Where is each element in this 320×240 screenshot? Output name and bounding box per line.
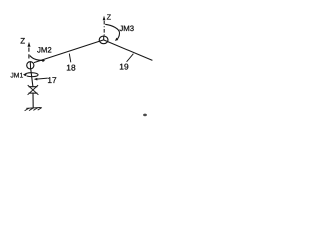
svg-text:19: 19 bbox=[119, 62, 129, 72]
link label l9 bbox=[119, 62, 129, 72]
svg-text:Z: Z bbox=[107, 13, 112, 22]
joint circle JM2 (shoulder) bbox=[27, 62, 34, 69]
svg-text:18: 18 bbox=[66, 62, 76, 72]
axis line through elbow circle bbox=[103, 36, 105, 40]
Z axis arrowhead (left) bbox=[28, 42, 31, 47]
joint label JM2 bbox=[37, 46, 52, 55]
ground hatch 3 bbox=[33, 108, 37, 111]
link l9 (elbow to tip) bbox=[104, 40, 153, 61]
ground hatch 2 bbox=[29, 108, 33, 111]
leader line for l8 bbox=[69, 54, 71, 63]
column link (shoulder down to motor) bbox=[31, 69, 33, 86]
link l8 (shoulder to elbow) bbox=[34, 40, 104, 63]
svg-text:JM2: JM2 bbox=[37, 46, 52, 55]
rotation arrow JM2 (arc about left vertical axis) bbox=[30, 56, 45, 63]
scan noise speck bbox=[143, 114, 147, 117]
svg-text:JM1: JM1 bbox=[10, 73, 23, 80]
axis label Z (left) bbox=[20, 36, 25, 45]
Z axis dash-dot line (right) bbox=[103, 21, 105, 36]
motor symbol X stroke 1 bbox=[28, 85, 39, 95]
link label l8 bbox=[66, 62, 76, 72]
Z axis dash-dot line (left) bbox=[28, 48, 30, 62]
ground hatch 4 bbox=[38, 108, 42, 111]
motor symbol (hourglass) top bar bbox=[29, 86, 38, 88]
motor symbol bottom bar bbox=[29, 92, 38, 94]
axis label z (right) bbox=[107, 13, 112, 22]
svg-text:JM3: JM3 bbox=[119, 24, 134, 33]
Z axis arrowhead (right) bbox=[103, 16, 106, 21]
rotation arrow JM1 (flat ellipse around column) bbox=[23, 73, 38, 77]
axis line through shoulder circle bbox=[29, 61, 31, 69]
ground hatch 1 bbox=[25, 108, 29, 111]
joint label JM3 bbox=[119, 24, 134, 33]
leader line for l9 bbox=[127, 54, 134, 62]
link from motor to ground bbox=[32, 93, 34, 107]
ground line bbox=[26, 107, 41, 110]
link label l7 bbox=[47, 75, 57, 85]
motor symbol X stroke 2 bbox=[28, 85, 38, 95]
joint circle JM3 (elbow) bbox=[99, 36, 108, 44]
leader arrow for l7 bbox=[34, 78, 48, 81]
svg-text:Z: Z bbox=[20, 36, 25, 45]
rotation arrow JM3 (arc about elbow axis) bbox=[105, 24, 119, 41]
svg-text:17: 17 bbox=[47, 75, 57, 85]
joint label JM1 bbox=[10, 73, 23, 80]
